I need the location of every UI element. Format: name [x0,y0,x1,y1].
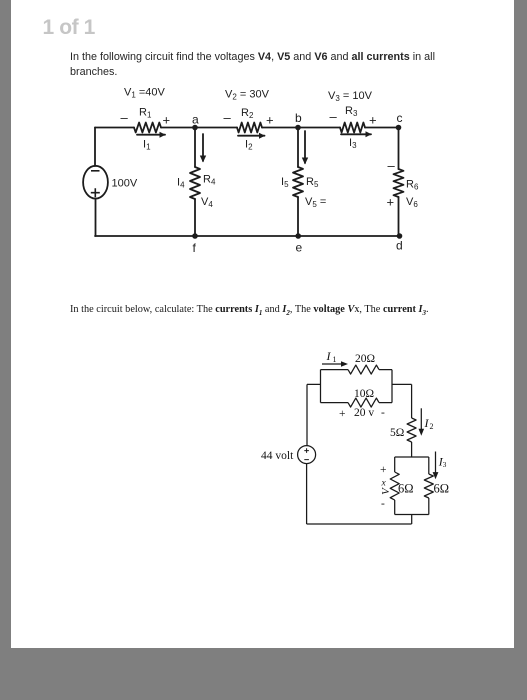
svg-text:44 volt: 44 volt [261,450,294,462]
svg-text:20Ω: 20Ω [355,353,375,365]
svg-text:20 v: 20 v [354,407,374,419]
svg-text:+: + [266,113,274,128]
svg-text:c: c [397,111,403,125]
svg-text:I: I [326,349,332,363]
svg-text:6Ω: 6Ω [398,482,414,496]
svg-text:V6: V6 [406,196,418,209]
svg-text:1: 1 [333,355,337,364]
svg-text:R6: R6 [406,179,419,192]
svg-text:-: - [381,407,385,419]
svg-text:e: e [296,241,303,255]
svg-text:V4: V4 [201,196,213,209]
svg-text:+: + [163,113,171,128]
svg-text:x: x [381,479,387,489]
svg-text:V2 = 30V: V2 = 30V [225,89,270,102]
svg-text:I3: I3 [349,137,357,150]
svg-text:R5: R5 [306,176,319,189]
svg-text:–: – [388,158,396,173]
svg-text:d: d [396,239,403,253]
svg-text:b: b [295,111,302,125]
svg-text:I4: I4 [177,177,185,190]
svg-text:R3: R3 [345,105,358,118]
svg-text:R2: R2 [241,107,254,120]
svg-text:f: f [193,241,197,255]
svg-text:+: + [369,113,377,128]
svg-text:5Ω: 5Ω [390,427,404,439]
svg-text:6Ω: 6Ω [434,482,450,496]
svg-text:+: + [339,408,346,420]
svg-text:I5: I5 [281,176,289,189]
svg-text:3: 3 [443,460,447,469]
svg-text:V5 =: V5 = [305,196,326,209]
svg-text:R1: R1 [139,107,152,120]
svg-text:2: 2 [430,422,434,431]
svg-text:-: - [381,498,385,510]
svg-text:10Ω: 10Ω [354,388,374,400]
svg-text:100V: 100V [112,178,138,190]
svg-text:+: + [380,464,387,476]
svg-text:R4: R4 [203,174,216,187]
svg-text:+: + [387,195,395,210]
svg-text:a: a [192,113,199,127]
svg-text:–: – [224,110,232,125]
svg-text:I2: I2 [245,139,253,152]
svg-text:V3 = 10V: V3 = 10V [328,90,373,103]
svg-text:V1 =40V: V1 =40V [124,87,166,100]
svg-text:–: – [330,109,338,124]
svg-text:I1: I1 [143,139,151,152]
svg-text:–: – [121,110,129,125]
